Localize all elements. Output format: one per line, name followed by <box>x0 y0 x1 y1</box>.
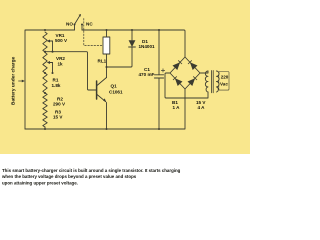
yellow schematic background <box>0 0 250 154</box>
wire: RL1 bottom to Q1 collector node <box>106 54 108 78</box>
svg-text:NO: NO <box>66 22 73 27</box>
C1 plus sign <box>161 69 164 72</box>
relay contact lever <box>75 15 81 25</box>
svg-text:1.8k: 1.8k <box>52 83 61 88</box>
C1 plate bottom <box>154 77 163 79</box>
wire: bottom rail and bridge bottom lead <box>25 89 185 129</box>
Q1 emitter lead <box>97 95 106 102</box>
resistor R3 <box>43 110 47 127</box>
svg-text:1N4001: 1N4001 <box>139 44 156 49</box>
bridge diode bar top-left <box>178 60 182 64</box>
VR2 wiper arrow <box>49 62 53 64</box>
node: rail/chain junction <box>44 29 46 31</box>
wire: bridge AC right to transformer secondary top <box>200 71 208 73</box>
capacitor C1 bottom wire <box>158 78 160 129</box>
C1 plate top <box>154 74 163 76</box>
svg-text:15 V: 15 V <box>53 115 63 120</box>
node: RL1 bottom / D1 / collector <box>105 66 107 68</box>
bridge diode bottom-left <box>175 78 183 86</box>
bridge diode top-right <box>190 62 198 70</box>
potentiometer VR2 <box>43 53 47 74</box>
node: chain bottom <box>44 128 46 130</box>
wire: Q1 emitter to bottom rail <box>106 103 108 130</box>
node: R1/R2 junction <box>44 92 46 94</box>
svg-text:500 V: 500 V <box>55 38 68 43</box>
Q1 emitter arrowhead <box>103 98 106 102</box>
svg-text:RL1: RL1 <box>98 59 107 64</box>
wire: bridge AC left to transformer secondary bottom <box>165 73 208 98</box>
relay lever tip arrowhead <box>79 14 81 17</box>
svg-text:C1061: C1061 <box>109 90 123 95</box>
bridge diode top-left <box>173 62 181 70</box>
node: emitter at bottom rail <box>105 128 107 130</box>
svg-text:Q1: Q1 <box>111 84 118 89</box>
svg-text:1 A: 1 A <box>173 105 181 110</box>
wire: VR1 wiper tie-down <box>52 41 54 52</box>
battery label leader arrow <box>19 80 23 82</box>
VR2 wiper arrowhead <box>47 61 50 64</box>
transformer T1 secondary winding <box>205 71 208 92</box>
capacitor C1 top wire <box>158 30 160 75</box>
transformer core <box>211 71 213 93</box>
relay contact NO stub <box>74 25 76 30</box>
resistor R1 <box>43 73 47 93</box>
node: rail/C1 <box>158 29 160 31</box>
Q1 collector lead <box>97 78 107 86</box>
relay coil RL1 wire from top rail <box>106 30 108 37</box>
svg-text:220: 220 <box>221 75 229 80</box>
node: VR2/R1 junction <box>44 72 46 74</box>
relay actuator dashed link <box>84 19 103 46</box>
wire: battery positive line + top rail (left of relay contact) <box>25 30 75 129</box>
resistor R2 <box>43 93 47 110</box>
transistor Q1 base bar <box>96 81 98 99</box>
svg-text:Battery under charge: Battery under charge <box>11 56 17 105</box>
mains 220Vac box <box>219 72 229 91</box>
relay contact NC stub <box>81 25 83 30</box>
wire: R3 to bottom rail <box>44 127 46 129</box>
relay coil RL1 <box>103 37 110 54</box>
svg-text:VR2: VR2 <box>56 56 65 61</box>
node: C1 at bottom rail <box>158 128 160 130</box>
bridge diode bar bottom-right <box>193 76 197 80</box>
node: rail/D1 <box>131 29 133 31</box>
transformer T1 primary winding <box>216 71 219 92</box>
bridge rectifier B1 diamond <box>170 57 200 89</box>
svg-text:when the battery voltage drops: when the battery voltage drops beyond a … <box>1 174 137 179</box>
VR1 wiper arrowhead <box>47 40 50 43</box>
potentiometer VR1 <box>43 32 47 52</box>
node: relay contact NC terminal <box>81 24 83 26</box>
node: VR2 wiper tie <box>51 72 53 74</box>
svg-text:Vac: Vac <box>220 81 228 86</box>
diode D1 cathode bar <box>129 46 136 48</box>
node: rail/RL1 <box>105 29 107 31</box>
svg-text:470 mF: 470 mF <box>139 72 155 77</box>
diode D1 feed wire <box>131 30 133 40</box>
svg-text:upon attaining upper preset vo: upon attaining upper preset voltage. <box>2 180 78 185</box>
svg-text:4 A: 4 A <box>198 105 206 110</box>
svg-text:290 V: 290 V <box>53 102 66 107</box>
bridge diode bar top-right <box>188 60 192 64</box>
wire: top rail right of relay contact, down to bridge top <box>82 30 185 57</box>
node: VR1/VR2 junction <box>44 51 46 53</box>
VR1 wiper arrow <box>49 40 53 42</box>
bridge diode bar bottom-left <box>173 76 177 80</box>
node: relay contact NO terminal <box>74 24 76 26</box>
svg-text:R1: R1 <box>53 78 59 83</box>
wire: VR2 wiper tie-down <box>52 63 54 74</box>
diode D1 triangle <box>129 40 136 47</box>
node: VR1 wiper tie <box>51 51 53 53</box>
svg-text:1k: 1k <box>58 62 64 67</box>
svg-text:NC: NC <box>86 22 93 27</box>
wire: VR1/VR2 junction to Q1 base <box>45 52 96 90</box>
wire: D1 to RL1 bottom <box>107 47 133 67</box>
battery leader arrowhead <box>22 80 25 83</box>
bridge diode bottom-right <box>188 78 196 86</box>
svg-text:This smart battery-charger cir: This smart battery-charger circuit is bu… <box>2 168 181 173</box>
